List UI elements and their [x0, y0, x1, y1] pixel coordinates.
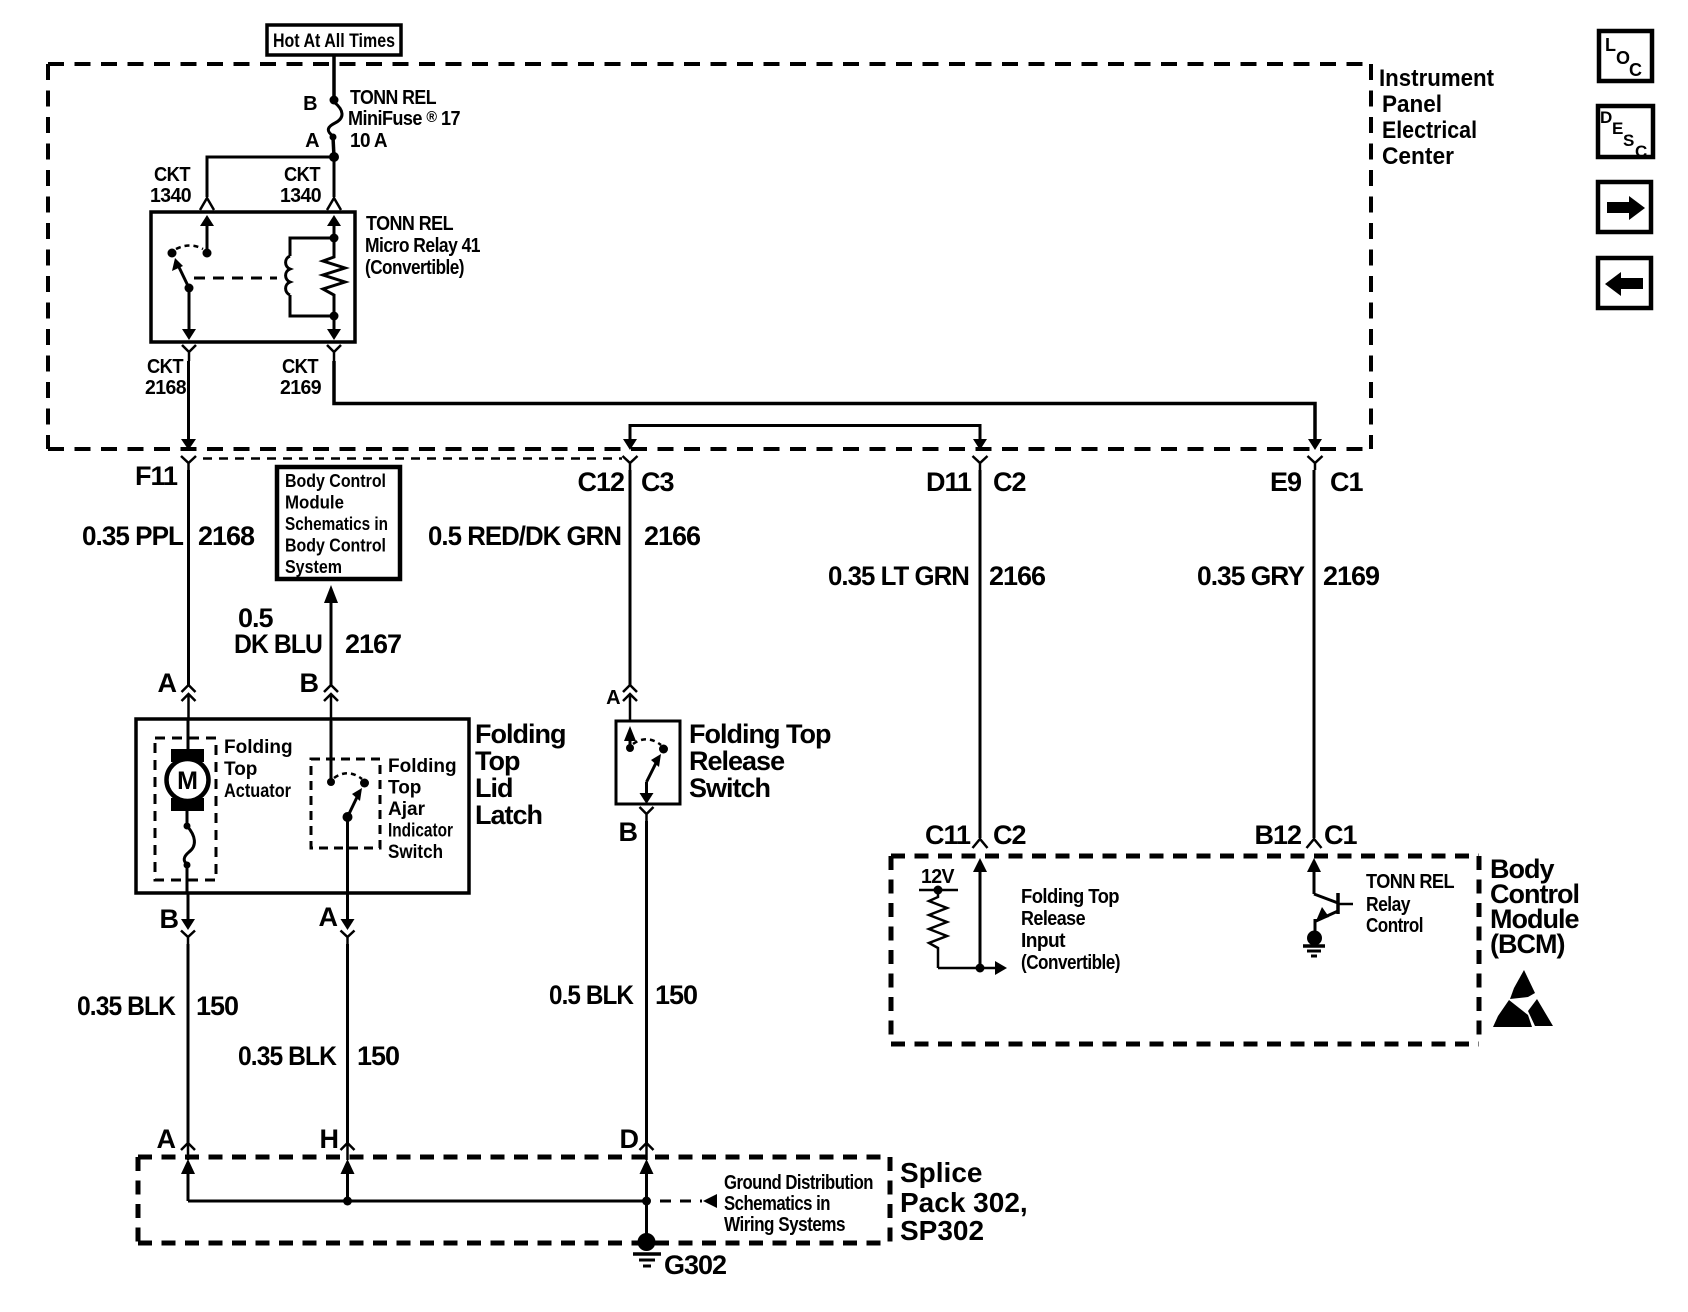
svg-text:D: D — [620, 1124, 639, 1154]
svg-text:MiniFuse ® 17: MiniFuse ® 17 — [348, 108, 460, 130]
svg-text:Switch: Switch — [689, 773, 770, 803]
junction dot at D on splice bus — [642, 1197, 651, 1206]
connector C12/C3 female — [623, 456, 638, 470]
svg-text:S: S — [1623, 131, 1634, 150]
svg-text:L: L — [1605, 35, 1616, 55]
motor M (folding top actuator) — [187, 719, 190, 752]
svg-text:System: System — [285, 557, 342, 577]
svg-text:Folding Top: Folding Top — [1021, 886, 1119, 908]
svg-text:Panel: Panel — [1382, 91, 1442, 118]
svg-text:Top: Top — [388, 778, 421, 799]
ajar switch blade with arrow — [348, 793, 360, 817]
svg-text:F11: F11 — [135, 461, 178, 491]
svg-text:Micro Relay 41: Micro Relay 41 — [365, 235, 480, 257]
svg-text:1340: 1340 — [280, 185, 321, 207]
connector pin A at splice pack — [181, 1143, 195, 1160]
svg-text:0.5 BLK: 0.5 BLK — [549, 980, 634, 1010]
release switch blade with arrow — [647, 759, 659, 782]
relay pin male arrow up, right (coil feed) — [327, 215, 341, 226]
svg-text:2166: 2166 — [644, 521, 701, 551]
svg-text:Electrical: Electrical — [1382, 117, 1477, 144]
svg-text:C2: C2 — [993, 467, 1026, 497]
svg-text:TONN REL: TONN REL — [1366, 871, 1454, 893]
wire from Hot At All Times down to fuse — [332, 55, 336, 99]
connector D11/C2 female — [973, 456, 988, 470]
svg-text:Lid: Lid — [475, 773, 513, 803]
svg-text:Folding Top: Folding Top — [689, 719, 831, 749]
wire splice bus SP302 — [188, 1200, 647, 1203]
relay output wire with arrow down — [188, 288, 191, 333]
svg-text:Splice: Splice — [900, 1157, 982, 1188]
relay switch pivot contact dot — [168, 249, 177, 258]
coil top junction dot — [330, 234, 339, 243]
svg-text:A: A — [606, 687, 620, 709]
svg-text:C1: C1 — [1330, 467, 1363, 497]
svg-text:150: 150 — [357, 1041, 399, 1071]
Instrument Panel Electrical Center dashed boundary box — [48, 64, 1371, 449]
fuse F17 TONN REL MiniFuse, terminal B dot — [330, 96, 339, 105]
wire CKT 2169 down, right and to E9 — [334, 361, 1315, 444]
connector pin H at splice pack — [341, 1143, 355, 1160]
svg-text:Indicator: Indicator — [388, 821, 453, 842]
svg-text:Top: Top — [475, 746, 520, 776]
svg-text:Actuator: Actuator — [224, 781, 292, 802]
svg-text:(Convertible): (Convertible) — [1021, 952, 1120, 974]
Splice Pack 302 dashed box — [138, 1157, 890, 1243]
svg-text:Schematics in: Schematics in — [724, 1193, 830, 1215]
ground at transistor emitter — [1307, 931, 1322, 946]
wire CKT 2168 down to F11 — [187, 361, 190, 444]
Body Control Module Schematics reference box — [277, 467, 400, 579]
svg-text:Body Control: Body Control — [285, 471, 386, 491]
svg-text:CKT: CKT — [284, 164, 320, 186]
release switch moving contact dot — [659, 745, 668, 754]
connector separation fine dashed line between F11 and C12 — [203, 457, 622, 460]
svg-text:2169: 2169 — [1323, 561, 1380, 591]
svg-text:Input: Input — [1021, 930, 1066, 952]
svg-text:A: A — [157, 1124, 176, 1154]
svg-text:0.35 PPL: 0.35 PPL — [82, 521, 183, 551]
svg-text:E: E — [1612, 119, 1623, 138]
svg-text:Switch: Switch — [388, 842, 443, 863]
svg-text:B: B — [300, 668, 319, 698]
ajar switch dashed travel arc — [334, 773, 362, 779]
wire actuator ground down to splice pack — [187, 944, 190, 1143]
svg-text:C: C — [1629, 60, 1642, 80]
svg-text:O: O — [1616, 48, 1630, 68]
relay coil suppression resistor — [323, 238, 345, 316]
connector female half below relay right — [327, 345, 341, 361]
wire ajar switch ground down to splice pack — [346, 944, 349, 1143]
svg-text:1340: 1340 — [150, 185, 191, 207]
svg-text:DK BLU: DK BLU — [234, 629, 322, 659]
wire link C12 to D11 (circuit 2166 inside IP center) — [630, 426, 980, 445]
svg-text:Ajar: Ajar — [388, 799, 426, 820]
svg-text:2169: 2169 — [280, 377, 321, 399]
svg-text:Module: Module — [285, 493, 344, 513]
wire branch left CKT 1340 — [207, 157, 334, 197]
svg-text:G302: G302 — [664, 1250, 726, 1280]
svg-text:2166: 2166 — [989, 561, 1046, 591]
svg-text:C3: C3 — [641, 467, 674, 497]
wire branch down CKT 1340 — [333, 157, 336, 197]
ajar switch contact dot — [330, 721, 333, 780]
svg-text:CKT: CKT — [154, 164, 190, 186]
navigation icon DESC — [1598, 106, 1653, 161]
svg-text:Ground Distribution: Ground Distribution — [724, 1172, 873, 1194]
svg-text:E9: E9 — [1270, 467, 1302, 497]
wire A to junction — [333, 137, 334, 157]
relay switch lower dot — [185, 284, 194, 293]
wire pin A into splice bus — [181, 1159, 195, 1174]
connector E9/C1 female — [1308, 456, 1323, 470]
svg-text:Center: Center — [1382, 143, 1454, 170]
svg-text:M: M — [177, 767, 198, 795]
svg-text:A: A — [305, 130, 319, 152]
svg-text:C12: C12 — [577, 467, 624, 497]
svg-text:SP302: SP302 — [900, 1215, 984, 1246]
release switch dashed travel arc — [633, 739, 661, 745]
svg-text:0.35 BLK: 0.35 BLK — [238, 1041, 337, 1071]
svg-text:0.5 RED/DK GRN: 0.5 RED/DK GRN — [428, 521, 621, 551]
svg-text:Instrument: Instrument — [1379, 65, 1494, 92]
wire F11 to actuator, circuit 2168 — [187, 470, 190, 685]
coil output wire arrow down — [333, 316, 336, 333]
svg-text:Schematics in: Schematics in — [285, 514, 388, 534]
wire pin D into splice bus — [640, 1159, 654, 1174]
terminal A dot — [330, 134, 337, 141]
connector female half at relay pin top right — [327, 198, 341, 210]
svg-text:Release: Release — [1021, 908, 1085, 930]
coil bottom junction dot — [330, 312, 339, 321]
wire circuit 2167 up-arrow into reference box — [324, 585, 338, 603]
svg-text:0.35 BLK: 0.35 BLK — [77, 991, 176, 1021]
svg-text:Control: Control — [1366, 915, 1423, 937]
svg-text:Pack 302,: Pack 302, — [900, 1187, 1028, 1218]
release switch input arrow and contact — [624, 726, 636, 741]
svg-text:Folding: Folding — [475, 719, 565, 749]
node Hot At All Times label box — [267, 25, 401, 55]
svg-text:(BCM): (BCM) — [1490, 929, 1564, 959]
fuse element S-curve — [328, 102, 342, 136]
junction dot and input arrow — [938, 967, 995, 970]
dashed reference arrow to ground distribution — [660, 1200, 702, 1203]
svg-text:Hot At All Times: Hot At All Times — [273, 31, 395, 52]
Folding Top Release Switch box — [616, 721, 680, 804]
svg-text:Folding: Folding — [388, 756, 457, 777]
transistor Q (TONN REL relay control driver) — [1314, 894, 1338, 903]
connector pin D at splice pack — [640, 1143, 654, 1160]
junction node dot — [329, 152, 339, 162]
svg-text:C2: C2 — [993, 820, 1026, 850]
svg-text:A: A — [158, 668, 177, 698]
svg-text:12V: 12V — [921, 866, 955, 888]
ajar switch moving contact dot — [360, 779, 369, 788]
svg-text:Wiring Systems: Wiring Systems — [724, 1214, 845, 1236]
wire C3 to release switch, circuit 2166 — [629, 470, 632, 685]
svg-text:2168: 2168 — [198, 521, 255, 551]
svg-text:2167: 2167 — [345, 629, 401, 659]
Folding Top Ajar Indicator Switch dashed enclosure — [311, 759, 380, 848]
Folding Top Lid Latch box — [136, 719, 469, 893]
svg-text:Latch: Latch — [475, 800, 542, 830]
svg-text:C1: C1 — [1324, 820, 1357, 850]
relay switch blade with arrow — [177, 263, 189, 288]
svg-text:Top: Top — [224, 759, 257, 780]
release switch output wire arrow down — [645, 782, 648, 797]
connector F11 female — [181, 456, 196, 470]
wire pin H into splice bus — [341, 1159, 355, 1174]
Body Control Module dashed box — [891, 856, 1479, 1044]
svg-text:150: 150 — [655, 980, 697, 1010]
svg-text:C11: C11 — [925, 820, 971, 850]
BCM pull-up resistor — [929, 890, 947, 968]
svg-text:10 A: 10 A — [350, 130, 387, 152]
connector female half below relay left — [182, 345, 196, 361]
svg-text:A: A — [319, 902, 338, 932]
Folding Top Actuator dashed enclosure — [155, 738, 216, 880]
svg-text:0.35 LT GRN: 0.35 LT GRN — [828, 561, 969, 591]
svg-text:CKT: CKT — [147, 356, 183, 378]
relay switch dashed travel arc — [176, 246, 203, 250]
svg-text:D: D — [1600, 108, 1612, 127]
svg-text:C: C — [1635, 142, 1647, 161]
navigation icon arrow left — [1598, 258, 1651, 308]
navigation icon arrow right — [1598, 182, 1651, 232]
svg-text:Folding: Folding — [224, 737, 293, 758]
ESD sensitive device symbol — [1493, 970, 1553, 1027]
navigation icon LOC — [1599, 31, 1652, 81]
svg-text:CKT: CKT — [282, 356, 318, 378]
svg-text:Release: Release — [689, 746, 785, 776]
junction dot at H on splice bus — [343, 1197, 352, 1206]
svg-text:D11: D11 — [926, 467, 972, 497]
relay coil (inductor) — [290, 238, 334, 256]
ajar switch output wire — [346, 817, 349, 893]
svg-text:0.35 GRY: 0.35 GRY — [1197, 561, 1305, 591]
svg-text:Relay: Relay — [1366, 894, 1411, 916]
relay pin male arrow up, left — [200, 215, 214, 226]
ground G302 — [645, 1201, 648, 1235]
svg-text:(Convertible): (Convertible) — [365, 257, 464, 279]
svg-text:2168: 2168 — [145, 377, 186, 399]
svg-text:B12: B12 — [1254, 820, 1301, 850]
motor lower flex lead — [186, 811, 189, 824]
svg-text:TONN REL: TONN REL — [350, 87, 436, 109]
svg-text:B: B — [160, 904, 179, 934]
wire C1 to BCM B12, circuit 2169 — [1313, 470, 1316, 838]
svg-text:B: B — [619, 817, 638, 847]
svg-text:150: 150 — [196, 991, 238, 1021]
relay actuation dashed link — [194, 277, 277, 280]
svg-text:H: H — [320, 1124, 339, 1154]
svg-text:B: B — [303, 93, 317, 115]
wire C2 to BCM C11, circuit 2166 — [979, 470, 982, 838]
svg-text:Body Control: Body Control — [285, 536, 386, 556]
connector female half at relay pin top left — [200, 198, 214, 210]
svg-text:TONN REL: TONN REL — [366, 213, 453, 235]
relay switch fixed contact dot — [203, 249, 212, 258]
relay TONN REL Micro Relay 41 box — [151, 212, 355, 342]
